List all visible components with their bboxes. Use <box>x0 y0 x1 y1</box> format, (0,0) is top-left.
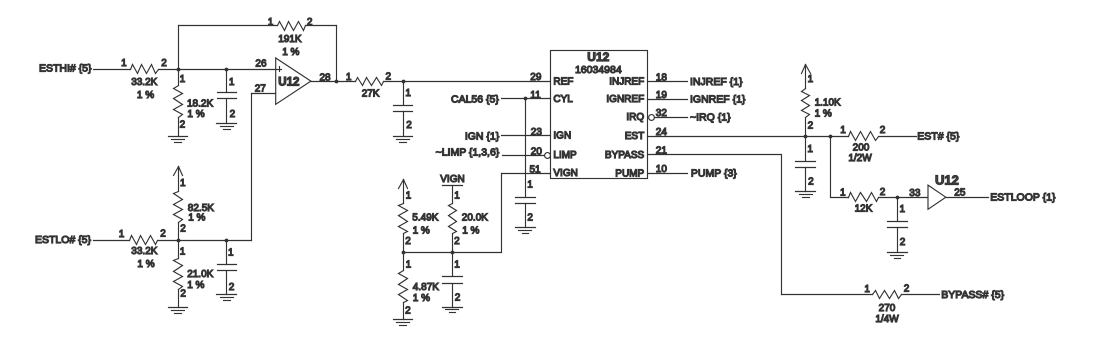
net label INJREF {1} <box>690 76 743 88</box>
net label EST# {5} <box>917 130 960 142</box>
net label PUMP {3} <box>691 167 737 179</box>
svg-text:1: 1 <box>406 191 412 202</box>
svg-text:2: 2 <box>527 212 533 223</box>
svg-text:PUMP {3}: PUMP {3} <box>691 167 737 179</box>
svg-text:1.10K: 1.10K <box>815 97 841 108</box>
resistor 33.2K (ESTLO series) <box>119 229 167 270</box>
net label CAL56 {5} <box>451 93 499 105</box>
wire pin 19 IGNREF <box>648 99 688 101</box>
ground (18.2K) <box>169 137 188 143</box>
wire R 33.2K to op-amp pin 26 <box>159 69 276 71</box>
svg-text:ESTLO# {5}: ESTLO# {5} <box>35 234 92 246</box>
svg-text:23: 23 <box>531 127 543 138</box>
svg-text:1 %: 1 % <box>815 109 832 120</box>
resistor 82.5K <box>174 178 215 241</box>
wire BYPASS bottom <box>782 294 873 296</box>
svg-text:1/4W: 1/4W <box>875 314 899 325</box>
svg-text:1: 1 <box>406 260 412 271</box>
capacitor (REF node) <box>394 82 413 137</box>
inverting bubble pin 32 <box>649 115 655 121</box>
pin number 32 <box>656 108 668 119</box>
pin name IGN <box>553 131 571 142</box>
resistor 27K <box>346 72 392 100</box>
svg-text:1: 1 <box>180 247 186 258</box>
svg-text:1: 1 <box>405 88 411 99</box>
svg-text:1 %: 1 % <box>462 225 479 236</box>
resistor 270 1/4W <box>864 283 909 325</box>
op-amp U12 (buffer) <box>928 173 959 210</box>
svg-text:2: 2 <box>455 293 461 304</box>
svg-text:REF: REF <box>553 77 573 88</box>
wire ESTLO# to R 33.2K pin 1 <box>94 240 130 242</box>
pin number 10 <box>656 164 668 175</box>
resistor 191K (feedback) <box>268 17 313 58</box>
wire pin 24 EST <box>648 136 849 138</box>
svg-text:1 %: 1 % <box>187 109 204 120</box>
svg-text:BYPASS# {5}: BYPASS# {5} <box>941 289 1004 301</box>
svg-text:IRQ: IRQ <box>626 112 644 123</box>
ground (REF cap) <box>394 137 413 143</box>
svg-text:1: 1 <box>527 180 533 191</box>
svg-text:~IRQ {1}: ~IRQ {1} <box>690 112 731 124</box>
capacitor (ESTLO node) <box>218 241 237 295</box>
pin number 20 <box>531 146 543 157</box>
node output/feedback <box>335 80 339 84</box>
svg-text:IGNREF: IGNREF <box>606 94 644 105</box>
svg-text:2: 2 <box>406 120 412 131</box>
pin name VIGN <box>553 168 577 179</box>
wire pin27 vertical to ESTLO node <box>251 94 253 241</box>
net label ESTLOOP {1} <box>990 191 1056 203</box>
net label ESTHI# {5} <box>39 63 92 75</box>
pin number 29 <box>530 72 542 83</box>
pin name EST <box>625 131 644 142</box>
net label ESTLO# {5} <box>35 234 92 246</box>
svg-text:U12: U12 <box>278 77 299 89</box>
svg-text:2: 2 <box>880 125 886 136</box>
pin name INJREF <box>609 77 644 88</box>
node divider left <box>402 251 406 255</box>
svg-text:1 %: 1 % <box>137 259 154 270</box>
wire feedback left vertical <box>178 26 180 70</box>
capacitor (CAL56) <box>516 180 536 228</box>
svg-text:26: 26 <box>255 58 267 69</box>
node EST/1.10K <box>804 135 808 139</box>
net label IGN {1} <box>465 130 500 142</box>
pin number 19 <box>656 90 668 101</box>
svg-text:27K: 27K <box>362 88 380 99</box>
resistor 5.49K <box>399 191 439 253</box>
ground (CAL56 cap) <box>516 228 536 234</box>
power arrow (1.10K) <box>802 65 811 89</box>
node EST/12K <box>829 135 833 139</box>
capacitor (EST filter) <box>796 137 816 192</box>
capacitor (divider) <box>443 253 463 308</box>
svg-text:1 %: 1 % <box>413 293 430 304</box>
svg-text:1: 1 <box>346 72 352 83</box>
inverting bubble pin 20 <box>545 153 551 159</box>
pin number 23 <box>531 127 543 138</box>
resistor 4.87K <box>399 253 440 320</box>
pin number 24 <box>656 127 668 138</box>
wire LIMP to pin 20 <box>503 155 545 157</box>
svg-text:INJREF: INJREF <box>609 77 644 88</box>
ground (ESTLO cap) <box>217 295 237 301</box>
pin name CYL <box>553 94 573 105</box>
node ESTHI cap <box>225 68 229 72</box>
op-amp U12 (left) <box>276 58 311 104</box>
svg-text:IGN {1}: IGN {1} <box>465 130 500 142</box>
net label BYPASS# {5} <box>941 289 1004 301</box>
pin number 18 <box>656 73 668 84</box>
wire pin 10 PUMP <box>648 173 688 175</box>
svg-text:200: 200 <box>853 142 870 153</box>
svg-text:2: 2 <box>180 288 186 299</box>
ground (4.87K) <box>394 320 413 326</box>
svg-text:~LIMP {1,3,6}: ~LIMP {1,3,6} <box>436 147 500 159</box>
net label IGNREF {1} <box>690 94 746 106</box>
ground (ESTHI cap) <box>217 124 237 130</box>
net label ~IRQ {1} <box>690 112 731 124</box>
svg-text:2: 2 <box>229 282 235 293</box>
svg-text:1 %: 1 % <box>188 212 205 223</box>
svg-text:1: 1 <box>840 188 846 199</box>
resistor 1.10K <box>802 74 842 136</box>
svg-text:25: 25 <box>954 187 966 198</box>
pin name IRQ <box>626 112 644 123</box>
node ESTLO divider <box>177 239 181 243</box>
svg-text:PUMP: PUMP <box>615 168 644 179</box>
svg-text:1: 1 <box>808 74 814 85</box>
svg-text:33: 33 <box>909 188 921 199</box>
wire 270 to BYPASS# <box>902 294 940 296</box>
power net label VIGN <box>440 174 464 185</box>
svg-text:1: 1 <box>454 260 460 271</box>
resistor 20.0K <box>449 186 489 253</box>
svg-text:2: 2 <box>307 17 313 28</box>
svg-text:IGNREF {1}: IGNREF {1} <box>690 94 746 106</box>
pin name REF <box>553 77 573 88</box>
svg-text:ESTLOOP {1}: ESTLOOP {1} <box>990 191 1056 203</box>
wire EST to 12K <box>831 137 849 198</box>
svg-text:12K: 12K <box>855 204 873 215</box>
svg-text:11: 11 <box>530 90 541 101</box>
svg-text:1 %: 1 % <box>413 225 430 236</box>
wire feedback top left <box>179 25 278 27</box>
capacitor (ESTHI node) <box>218 70 237 124</box>
ground (divider cap) <box>443 308 463 313</box>
pin number 27 <box>255 83 267 94</box>
svg-text:CYL: CYL <box>553 94 573 105</box>
svg-text:1: 1 <box>228 247 234 258</box>
IC U12 16034984 <box>551 50 648 178</box>
svg-text:1 %: 1 % <box>137 90 154 101</box>
pin number 21 <box>656 146 668 157</box>
svg-text:2: 2 <box>405 236 411 247</box>
wire pin 32 IRQ <box>655 117 688 119</box>
wire CAL56 cap vertical <box>525 99 527 198</box>
svg-text:2: 2 <box>230 109 236 120</box>
wire pin 18 INJREF <box>648 81 688 83</box>
svg-text:1: 1 <box>807 144 813 155</box>
svg-text:1: 1 <box>900 204 906 215</box>
pin number 25 <box>954 187 966 198</box>
resistor 200 1/2W <box>840 125 886 164</box>
ground (ESTLOOP cap) <box>888 253 908 259</box>
svg-text:U12: U12 <box>935 173 959 188</box>
node CAL56 cap <box>524 97 528 101</box>
svg-text:2: 2 <box>180 120 186 131</box>
svg-text:BYPASS: BYPASS <box>605 150 645 161</box>
wire feedback top right <box>306 25 337 27</box>
svg-text:1: 1 <box>229 77 235 88</box>
svg-text:29: 29 <box>530 72 542 83</box>
wire pin 51 down-left <box>404 174 502 253</box>
svg-text:1: 1 <box>119 229 125 240</box>
svg-text:VIGN: VIGN <box>440 174 464 185</box>
pin number 11 <box>530 90 541 101</box>
wire IGN to pin 23 <box>502 135 551 137</box>
wire 27K to IC pin 29 REF <box>384 81 551 83</box>
svg-text:21.0K: 21.0K <box>187 269 213 280</box>
wire 200 to EST# <box>879 136 917 138</box>
svg-text:1: 1 <box>121 58 127 69</box>
wire buffer output <box>946 197 989 199</box>
svg-text:1 %: 1 % <box>187 280 204 291</box>
svg-text:16034984: 16034984 <box>575 64 622 76</box>
wire ESTLO node row <box>158 240 252 242</box>
svg-text:20.0K: 20.0K <box>462 213 488 224</box>
ground (EST cap) <box>796 192 816 198</box>
node ESTHI divider <box>177 68 181 72</box>
svg-text:2: 2 <box>904 283 910 294</box>
resistor 18.2K <box>174 70 214 137</box>
svg-text:EST# {5}: EST# {5} <box>917 130 960 142</box>
svg-text:2: 2 <box>454 236 460 247</box>
wire ESTHI# to R 33.2K pin 1 <box>94 69 131 71</box>
svg-text:27: 27 <box>255 83 267 94</box>
svg-text:191K: 191K <box>278 34 302 45</box>
wire feedback right vertical <box>336 26 338 82</box>
svg-text:5.49K: 5.49K <box>412 213 438 224</box>
svg-text:33.2K: 33.2K <box>131 77 157 88</box>
svg-text:1: 1 <box>180 178 186 189</box>
svg-text:4.87K: 4.87K <box>413 282 439 293</box>
power arrow (5.49K) <box>399 180 408 204</box>
svg-text:2: 2 <box>180 223 186 234</box>
svg-text:1: 1 <box>180 74 186 85</box>
pin name PUMP <box>615 168 644 179</box>
wire 12K to buffer pin 33 <box>879 197 929 199</box>
pin name LIMP <box>553 150 577 161</box>
svg-text:1: 1 <box>864 284 870 295</box>
wire CAL56 to pin 11 <box>502 98 551 100</box>
svg-text:IGN: IGN <box>553 131 571 142</box>
pin number 26 <box>255 58 267 69</box>
resistor 33.2K (ESTHI series) <box>121 58 167 101</box>
svg-text:2: 2 <box>405 305 411 316</box>
svg-text:CAL56 {5}: CAL56 {5} <box>451 93 499 105</box>
svg-text:INJREF {1}: INJREF {1} <box>690 76 743 88</box>
svg-text:2: 2 <box>161 58 167 69</box>
wire op-amp output <box>311 81 356 83</box>
wire VIGN pin 51 <box>502 173 551 175</box>
capacitor (ESTLOOP filter) <box>888 198 908 253</box>
node divider right <box>451 251 455 255</box>
ground (21.0K) <box>169 308 188 314</box>
wire op-amp pin 27 <box>252 93 276 95</box>
svg-text:1: 1 <box>268 17 274 28</box>
power arrow (82.5K) <box>174 167 183 192</box>
pin name BYPASS <box>605 150 645 161</box>
svg-text:1/2W: 1/2W <box>848 153 872 164</box>
svg-text:2: 2 <box>808 177 814 188</box>
svg-text:2: 2 <box>900 237 906 248</box>
resistor 21.0K <box>174 241 214 308</box>
svg-text:1: 1 <box>840 125 846 136</box>
pin number 33 <box>909 188 921 199</box>
svg-text:EST: EST <box>625 131 644 142</box>
svg-text:VIGN: VIGN <box>553 168 577 179</box>
svg-text:2: 2 <box>160 229 166 240</box>
pin name IGNREF <box>606 94 644 105</box>
svg-text:33.2K: 33.2K <box>131 246 157 257</box>
svg-text:LIMP: LIMP <box>553 150 577 161</box>
resistor 12K <box>840 187 886 215</box>
svg-text:1: 1 <box>454 191 460 202</box>
node ESTLO cap <box>225 239 229 243</box>
node REF filter <box>402 80 406 84</box>
node 12K/cap <box>896 196 900 200</box>
svg-text:2: 2 <box>808 121 814 132</box>
pin number 28 <box>320 73 332 84</box>
pin number 51 <box>530 164 542 175</box>
wire pin 21 BYPASS <box>648 155 782 295</box>
svg-text:U12: U12 <box>587 50 609 64</box>
svg-text:ESTHI# {5}: ESTHI# {5} <box>39 63 92 75</box>
svg-text:270: 270 <box>879 303 896 314</box>
svg-text:1 %: 1 % <box>282 47 299 58</box>
svg-text:18.2K: 18.2K <box>187 99 213 110</box>
svg-text:2: 2 <box>880 187 886 198</box>
net label ~LIMP {1,3,6} <box>436 147 500 159</box>
